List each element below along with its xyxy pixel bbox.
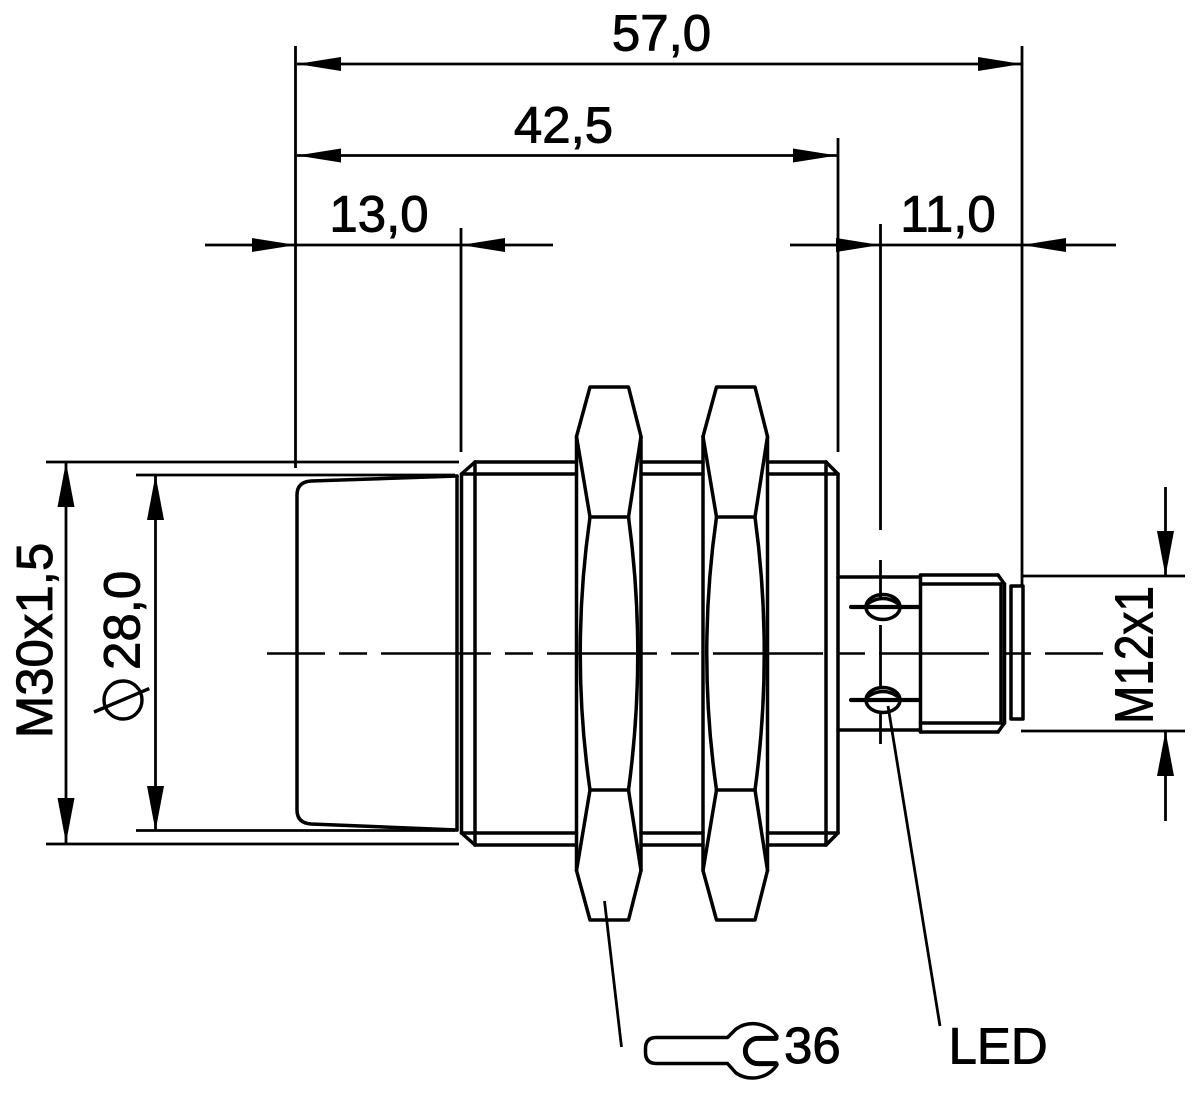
svg-text:28,0: 28,0: [94, 571, 151, 670]
svg-text:LED: LED: [949, 1018, 1048, 1075]
svg-text:11,0: 11,0: [900, 186, 995, 243]
svg-text:M30x1,5: M30x1,5: [6, 543, 63, 739]
svg-text:M12x1: M12x1: [1104, 586, 1164, 724]
svg-text:36: 36: [784, 1017, 841, 1074]
svg-text:13,0: 13,0: [329, 186, 428, 243]
svg-text:57,0: 57,0: [612, 5, 711, 62]
svg-text:42,5: 42,5: [514, 97, 613, 154]
